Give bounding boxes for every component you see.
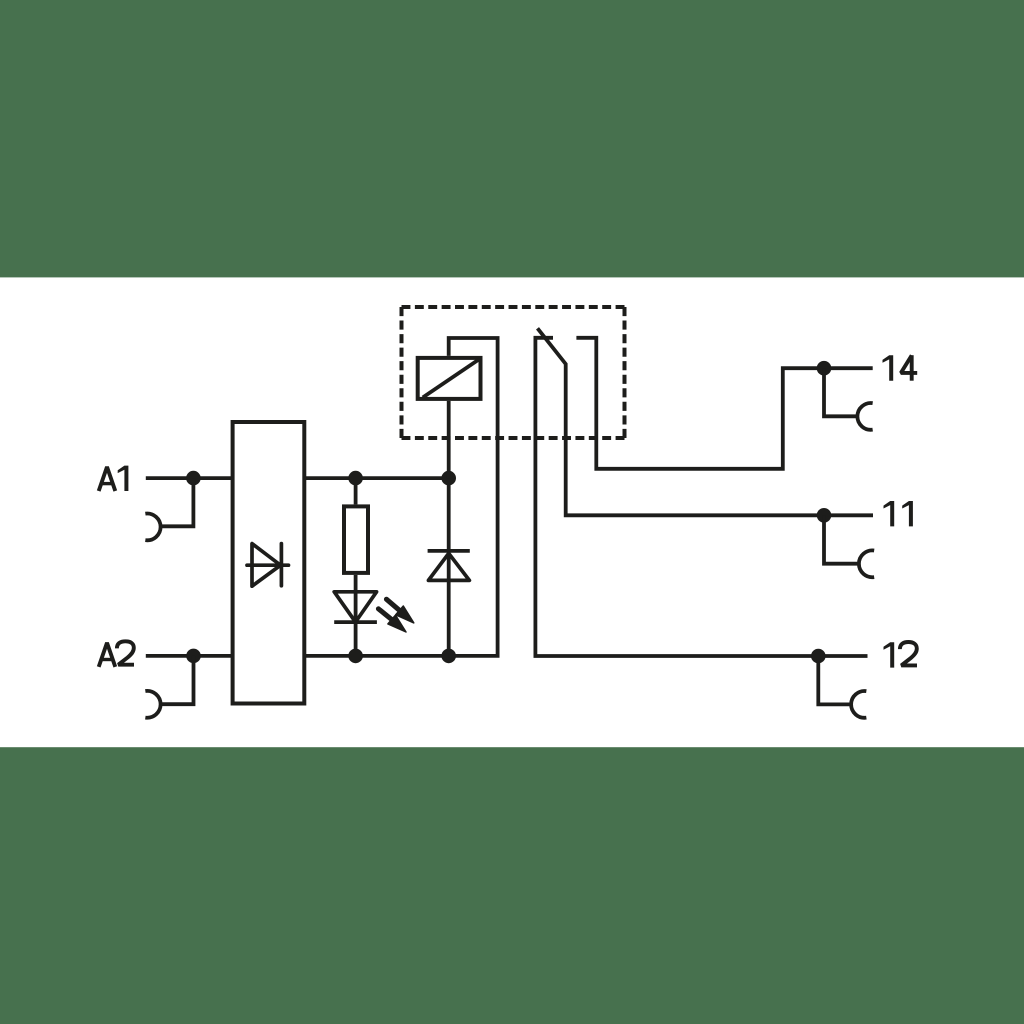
resistor R1 top lead	[354, 478, 358, 504]
node D3 top junction	[441, 471, 456, 486]
node R1 top junction	[348, 471, 363, 486]
terminal label A2	[99, 643, 116, 667]
relay coil K1 bottom stub	[447, 401, 451, 478]
diode D3 cathode bar	[428, 549, 470, 553]
connector socket 14	[824, 368, 857, 416]
switch contact pole wire to terminal 12	[535, 338, 867, 656]
node 11 junction	[817, 508, 832, 523]
connector socket A1	[161, 478, 194, 526]
node 12 junction	[811, 649, 826, 664]
node 14 junction	[817, 361, 832, 376]
resistor R1 bottom lead through LED	[354, 575, 358, 656]
relay boundary dashed box K1	[402, 305, 625, 309]
diode D1 axis lead	[247, 563, 289, 567]
switch contact blade wire to terminal 11	[538, 328, 874, 515]
connector socket A2	[161, 656, 194, 704]
polarity protection block	[233, 422, 305, 704]
LED D2 light arrow lower	[378, 609, 392, 620]
switch NO contact wire to terminal 14	[576, 338, 872, 469]
diode D1 cathode bar	[280, 544, 284, 586]
terminal label A1	[99, 467, 116, 491]
LED D2 triangle	[334, 592, 376, 622]
wire A2 left segment	[146, 654, 232, 658]
node D3 bottom junction	[441, 649, 456, 664]
wire A1 left segment	[146, 476, 232, 480]
diode D1 triangle	[252, 544, 281, 587]
connector socket 11	[824, 515, 859, 563]
node LED bottom junction	[348, 649, 363, 664]
terminal label 14	[883, 355, 894, 380]
relay coil K1	[418, 358, 481, 399]
terminal label 12	[884, 642, 895, 667]
wire coil return to A2	[449, 338, 498, 656]
LED D2 light arrow upper	[386, 599, 400, 611]
wire A2 right segment	[306, 654, 449, 658]
connector socket 12	[818, 656, 851, 704]
relay coil K1 diagonal	[423, 360, 479, 398]
wire A1 right segment	[306, 476, 449, 480]
resistor R1	[344, 506, 368, 573]
node A2 junction	[186, 649, 201, 664]
diode D3 triangle	[428, 553, 469, 580]
LED D2 cathode bar	[334, 620, 377, 624]
terminal label 11	[884, 501, 895, 526]
freewheel diode D3 lead	[447, 478, 451, 656]
node A1 junction	[186, 471, 201, 486]
